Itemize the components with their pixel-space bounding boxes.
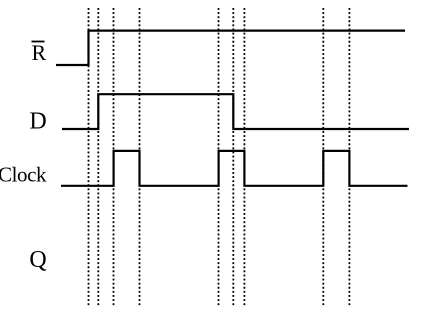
timing marker t9 (clock pulse 3 fall): [348, 8, 350, 307]
waveform Clock trace: [61, 151, 408, 186]
waveform D trace: [62, 94, 409, 129]
timing marker t3 (clock pulse 1 rise): [113, 8, 115, 307]
signal label Q: [29, 247, 46, 273]
svg-text:D: D: [29, 108, 46, 134]
svg-text:Q: Q: [29, 247, 46, 273]
svg-text:Clock: Clock: [0, 163, 47, 187]
svg-text:R: R: [32, 40, 47, 65]
signal label Clock: [0, 163, 47, 187]
waveform R-bar trace: [56, 31, 405, 65]
timing marker t7 (clock pulse 2 fall): [243, 8, 245, 307]
signal label R-bar: [32, 40, 47, 65]
timing marker t5 (clock pulse 2 rise): [218, 8, 220, 307]
timing marker t8 (clock pulse 3 rise): [322, 8, 324, 307]
timing marker t1 (R rise): [88, 8, 90, 307]
timing marker t4 (clock pulse 1 fall): [139, 8, 141, 307]
signal label D: [29, 108, 46, 134]
timing marker t2 (D rise): [97, 8, 99, 307]
timing marker t6 (D fall): [232, 8, 234, 307]
